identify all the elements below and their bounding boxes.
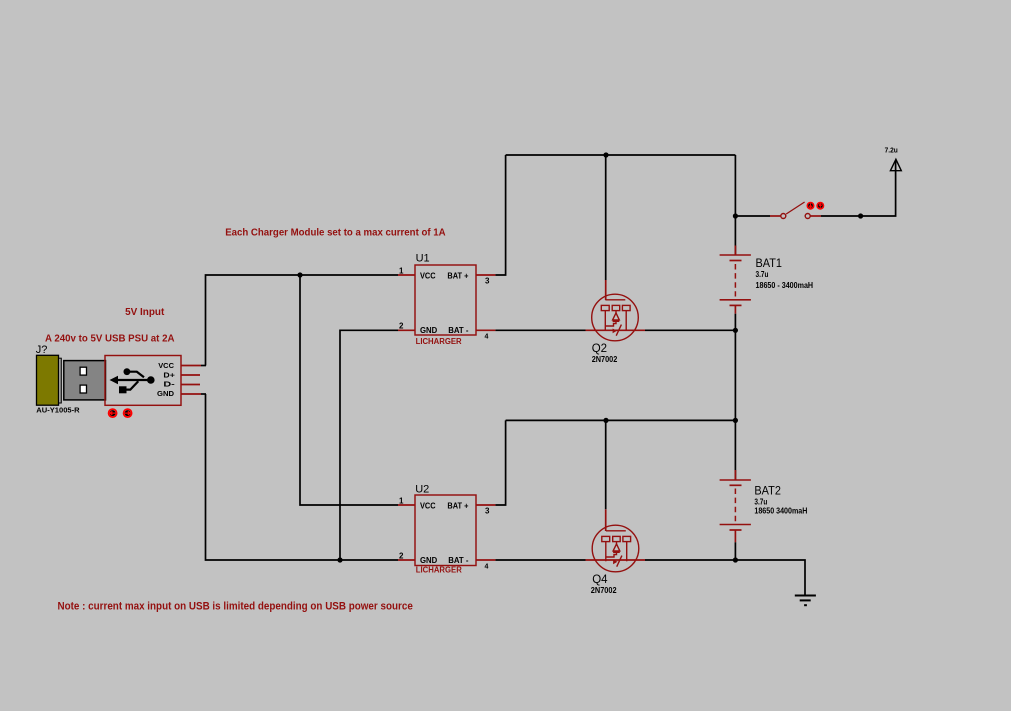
pin 3 stub U2 <box>476 504 495 506</box>
transistor Q4 gate pin red <box>605 509 607 531</box>
connector J? symbol box <box>105 356 181 406</box>
svg-text:4: 4 <box>485 334 489 341</box>
svg-text:3: 3 <box>485 277 490 286</box>
svg-text:LICHARGER: LICHARGER <box>416 565 462 574</box>
svg-text:3.7u: 3.7u <box>756 270 769 279</box>
svg-text:2: 2 <box>399 552 404 561</box>
battery BAT1 plate short bottom <box>730 304 742 306</box>
transistor Q4 symbol <box>592 525 639 572</box>
svg-text:1: 1 <box>399 497 404 506</box>
wire GND rail from USB down to U2 pin2 <box>206 394 399 560</box>
svg-text:BAT +: BAT + <box>447 272 468 281</box>
power symbol 7.2u triangle <box>890 159 901 170</box>
wire Q2 source row right black <box>645 329 735 331</box>
node junction switch row / BAT1 top <box>733 213 738 218</box>
svg-text:J?: J? <box>36 344 48 356</box>
pin 4 stub U2 <box>476 559 495 561</box>
node junction on switch output <box>858 213 863 218</box>
pin 3 stub U1 <box>476 274 495 276</box>
svg-text:3: 3 <box>485 507 490 516</box>
battery BAT1 plate long top <box>720 254 751 256</box>
pin 1 stub U1 <box>398 274 415 276</box>
wire Q4 drain vertical <box>605 420 607 509</box>
connector J? side strip <box>59 358 62 403</box>
connector J? USB plug gray body <box>64 361 106 400</box>
wire Q2 source row left black <box>495 329 585 331</box>
marker arrow-right below USB <box>124 409 132 417</box>
svg-text:GND: GND <box>420 556 437 565</box>
wire Q4 source row right black <box>645 559 735 561</box>
svg-text:GND: GND <box>420 326 437 335</box>
node junction Q2 row / BAT1 bottom <box>733 328 738 333</box>
battery BAT2 bottom stub <box>734 530 736 542</box>
marker arrow-left below USB <box>109 409 117 417</box>
switch S1 pin stub left <box>770 215 781 217</box>
svg-text:2N7002: 2N7002 <box>592 355 618 364</box>
marker arrow-down on switch <box>807 203 813 209</box>
node junction mid rail to Q4 drain <box>603 418 608 423</box>
battery BAT1 top stub <box>734 216 736 255</box>
node junction top rail to Q2 drain <box>603 152 608 157</box>
battery BAT2 top stub <box>734 420 736 480</box>
svg-text:A 240v to 5V USB PSU at 2A: A 240v to 5V USB PSU at 2A <box>45 332 175 344</box>
svg-text:18650 - 3400maH: 18650 - 3400maH <box>756 280 814 290</box>
svg-text:BAT +: BAT + <box>447 502 468 511</box>
wire mid rail <box>506 419 736 421</box>
pin D- stub <box>181 384 200 386</box>
svg-text:VCC: VCC <box>158 361 174 370</box>
svg-text:Note : current max input on US: Note : current max input on USB is limit… <box>58 601 413 613</box>
svg-text:VCC: VCC <box>420 272 436 281</box>
battery BAT1 plate long bottom <box>720 299 751 301</box>
svg-text:5V Input: 5V Input <box>125 306 165 318</box>
svg-text:BAT -: BAT - <box>448 556 469 565</box>
wire GND branch up to U1 pin2 <box>340 330 398 560</box>
connector J? USB socket olive body <box>37 355 59 405</box>
USB trident icon <box>113 372 152 390</box>
switch S1 contact circle left <box>781 214 786 219</box>
svg-text:GND: GND <box>157 389 175 398</box>
svg-text:U2: U2 <box>415 484 429 496</box>
battery BAT1 dashed body <box>734 264 736 297</box>
svg-text:2: 2 <box>399 322 404 331</box>
connector J? plug contact window 2 <box>80 385 86 393</box>
battery BAT2 plate long top <box>720 479 751 481</box>
battery BAT2 plate short top <box>730 484 742 486</box>
svg-text:18650 3400maH: 18650 3400maH <box>754 505 807 515</box>
pin GND stub <box>181 393 201 395</box>
svg-text:LICHARGER: LICHARGER <box>416 337 462 346</box>
wire bottom rail to ground <box>735 560 805 595</box>
svg-text:VCC: VCC <box>420 502 436 511</box>
IC U2 charger module box <box>415 495 476 566</box>
svg-text:U1: U1 <box>416 253 430 265</box>
wire switch row left <box>735 215 770 217</box>
wire top rail <box>506 154 736 156</box>
transistor Q4 source-drain rail red <box>586 559 646 561</box>
wire top rail down to switch row <box>734 155 736 216</box>
svg-text:AU-Y1005-R: AU-Y1005-R <box>36 406 80 415</box>
svg-text:2N7002: 2N7002 <box>591 586 617 595</box>
ground symbol <box>795 595 816 597</box>
battery BAT1 plate short top <box>730 260 742 262</box>
battery BAT2 plate short bottom <box>730 529 742 531</box>
switch S1 lever <box>786 202 804 214</box>
wire Q4 source row left black <box>495 559 585 561</box>
svg-text:4: 4 <box>485 564 489 571</box>
svg-text:BAT2: BAT2 <box>754 483 781 497</box>
svg-text:Each Charger Module set to a m: Each Charger Module set to a max current… <box>225 226 446 238</box>
IC U1 charger module box <box>415 265 476 335</box>
node junction GND split <box>337 557 342 562</box>
svg-text:BAT -: BAT - <box>448 326 469 335</box>
svg-text:Q2: Q2 <box>592 343 607 355</box>
wire BAT1 bottom to mid rail <box>734 330 736 420</box>
transistor Q2 source-drain rail red <box>586 329 646 331</box>
wire U1 pin3 to top rail <box>495 155 505 275</box>
svg-text:D+: D+ <box>163 370 175 379</box>
battery BAT2 plate long bottom <box>720 524 751 526</box>
node junction mid rail right <box>733 418 738 423</box>
battery BAT2 dashed body <box>734 489 736 522</box>
node junction BAT2 bottom <box>733 557 738 562</box>
pin 4 stub U1 <box>476 329 495 331</box>
switch S1 pin stub right <box>810 215 821 217</box>
svg-text:Q4: Q4 <box>592 574 608 586</box>
svg-text:7.2u: 7.2u <box>885 146 899 155</box>
wire VCC rail from USB up to U1 pin1 <box>206 275 399 366</box>
pin 2 stub U2 <box>398 559 415 561</box>
transistor Q2 symbol <box>592 294 639 341</box>
wire switch row right to power corner <box>821 161 896 216</box>
pin D+ stub <box>181 374 200 376</box>
svg-text:D-: D- <box>163 380 175 389</box>
svg-text:1: 1 <box>399 267 404 276</box>
node junction VCC split <box>297 272 302 277</box>
connector J? plug contact window 1 <box>80 367 86 375</box>
pin 1 stub U2 <box>398 504 415 506</box>
wire U2 pin3 to mid rail <box>495 420 505 505</box>
marker arrow-up on switch <box>817 203 823 209</box>
wire VCC branch down to U2 pin1 <box>300 275 398 505</box>
pin 2 stub U1 <box>398 329 415 331</box>
svg-text:BAT1: BAT1 <box>756 256 783 270</box>
battery BAT1 bottom stub <box>734 305 736 313</box>
wire Q2 drain vertical <box>605 155 607 280</box>
switch S1 contact circle right <box>805 214 810 219</box>
pin VCC stub <box>181 365 201 367</box>
transistor Q2 gate pin red <box>605 280 607 300</box>
